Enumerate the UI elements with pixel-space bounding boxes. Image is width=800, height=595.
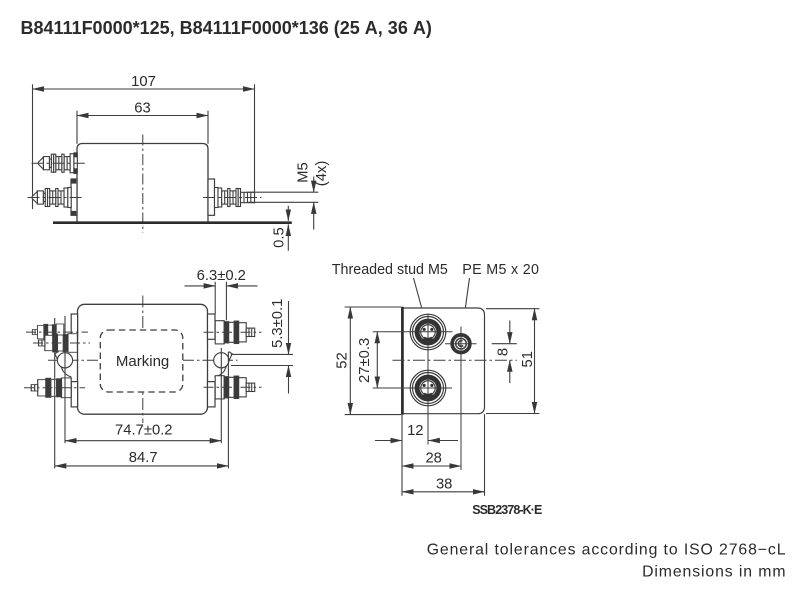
upper stud crosshair xyxy=(373,331,453,333)
svg-text:63: 63 xyxy=(134,100,150,116)
extension lines 6.3 xyxy=(214,282,216,314)
upper-right terminal bolt (top view) xyxy=(215,321,255,344)
leader line threaded stud xyxy=(414,278,427,327)
dimension line 27±0.3 xyxy=(376,332,378,388)
extension lines 52 xyxy=(345,306,401,308)
5.3 dimension arrows xyxy=(288,301,290,354)
svg-text:38: 38 xyxy=(436,477,452,493)
right lower flange (top view) xyxy=(208,382,216,407)
side view: extension line right (107) xyxy=(254,84,256,203)
lower stud crosshair xyxy=(373,387,452,389)
svg-text:General tolerances according t: General tolerances according to ISO 2768… xyxy=(427,542,787,559)
dimension line 84.7 xyxy=(55,465,229,467)
svg-text:74.7±0.2: 74.7±0.2 xyxy=(115,423,173,439)
12 dimension arrows (outside) xyxy=(375,440,402,442)
svg-text:8: 8 xyxy=(496,348,512,356)
upper-left large terminal bolt (top view) xyxy=(39,334,78,353)
extension lines 74.7 xyxy=(64,316,66,443)
svg-text:6.3±0.2: 6.3±0.2 xyxy=(197,268,246,284)
lower left terminal bolt (side view) xyxy=(32,188,71,208)
leader line PE xyxy=(461,278,469,338)
vertical centerline (top view) xyxy=(142,296,144,424)
right flange (side view) xyxy=(208,179,215,215)
svg-text:28: 28 xyxy=(425,451,441,467)
dimension line 28 xyxy=(402,465,461,467)
right mounting ear tab xyxy=(214,352,232,378)
dimension line 74.7 xyxy=(65,440,221,442)
svg-text:51: 51 xyxy=(520,351,536,367)
6.3 dimension arrows (outside) xyxy=(185,285,216,287)
rear view thick left plate edge xyxy=(401,307,404,415)
extension line body left edge down xyxy=(401,415,403,496)
mounting base plate (side view) xyxy=(53,221,292,224)
svg-text:M5: M5 xyxy=(296,162,312,183)
8 dimension arrows xyxy=(509,321,511,344)
side view: extension line left (107) xyxy=(32,84,34,209)
dimension line 52 xyxy=(349,307,351,415)
5.3 reference lines xyxy=(231,301,293,394)
right terminal bolt with threaded stud (side view) xyxy=(215,188,255,208)
dimension line 63 xyxy=(77,115,208,117)
extension lines 51 xyxy=(486,308,539,310)
extension lines 84.7 xyxy=(54,318,56,468)
svg-text:27±0.3: 27±0.3 xyxy=(357,338,373,383)
side view: extension line right (63) xyxy=(207,111,209,144)
centerline lower left bolt xyxy=(28,197,84,199)
left mounting ear tab xyxy=(55,352,72,378)
dark nut corners at upper bolt/body joint xyxy=(74,152,78,157)
svg-text:PE M5 x 20: PE M5 x 20 xyxy=(462,262,539,278)
PE screw xyxy=(452,335,470,353)
svg-text:107: 107 xyxy=(131,74,156,90)
svg-text:5.3±0.1: 5.3±0.1 xyxy=(270,299,286,348)
svg-text:Threaded stud M5: Threaded stud M5 xyxy=(332,262,448,278)
filter body (side view) xyxy=(77,144,208,223)
svg-text:SSB2378-K·E: SSB2378-K·E xyxy=(472,503,542,517)
vertical centerline (side view) xyxy=(142,135,144,233)
left lower flange (top view) xyxy=(71,382,77,407)
centerline upper left bolt xyxy=(32,162,85,164)
upper-left small terminal bolt (top view) xyxy=(32,324,63,340)
upper left terminal bolt (side view) xyxy=(38,153,77,173)
main horizontal centerline (rear view) xyxy=(393,359,517,361)
left flange (side view) xyxy=(71,179,77,215)
svg-text:52: 52 xyxy=(335,352,351,368)
M5 stud reference lines xyxy=(247,192,319,202)
M5 dimension arrows xyxy=(313,177,315,230)
svg-text:B84111F0000*125, B84111F0000*1: B84111F0000*125, B84111F0000*136 (25 A, … xyxy=(21,18,432,38)
svg-text:Dimensions in mm: Dimensions in mm xyxy=(642,563,786,580)
centerline right bolt xyxy=(203,197,262,199)
extension line body right edge down xyxy=(484,414,486,496)
dimension line 107 xyxy=(33,88,255,90)
horizontal centerline (top view, right) xyxy=(183,359,238,361)
right mounting hole xyxy=(214,353,229,368)
side view: extension line left (63) xyxy=(76,111,78,144)
rear view body outline xyxy=(402,308,485,414)
dimension line 38 xyxy=(402,491,485,493)
svg-text:84.7: 84.7 xyxy=(129,450,158,466)
svg-text:(4x): (4x) xyxy=(314,161,330,187)
0.5 dimension arrows xyxy=(287,206,289,251)
PE screw horizontal crosshair xyxy=(445,343,477,345)
right upper flange (top view) xyxy=(208,314,216,339)
lower-left terminal bolt (top view) xyxy=(31,378,71,398)
left upper flange (top view) xyxy=(71,314,77,339)
horizontal centerline (top view, left) xyxy=(48,359,101,361)
svg-text:12: 12 xyxy=(407,423,423,439)
upper threaded stud xyxy=(410,314,446,350)
svg-text:0.5: 0.5 xyxy=(271,227,287,248)
lower-right terminal bolt (top view) xyxy=(215,376,255,399)
PE screw vertical line xyxy=(460,327,462,471)
dimension line 51 xyxy=(534,309,536,414)
extension line 8 (PE level) xyxy=(492,343,517,345)
filter body (top view) xyxy=(78,304,208,414)
svg-text:Marking: Marking xyxy=(116,353,169,370)
left mounting hole xyxy=(57,353,72,368)
vertical line through studs xyxy=(427,314,429,445)
marking field (dashed) xyxy=(100,330,183,392)
lower threaded stud xyxy=(410,370,446,406)
